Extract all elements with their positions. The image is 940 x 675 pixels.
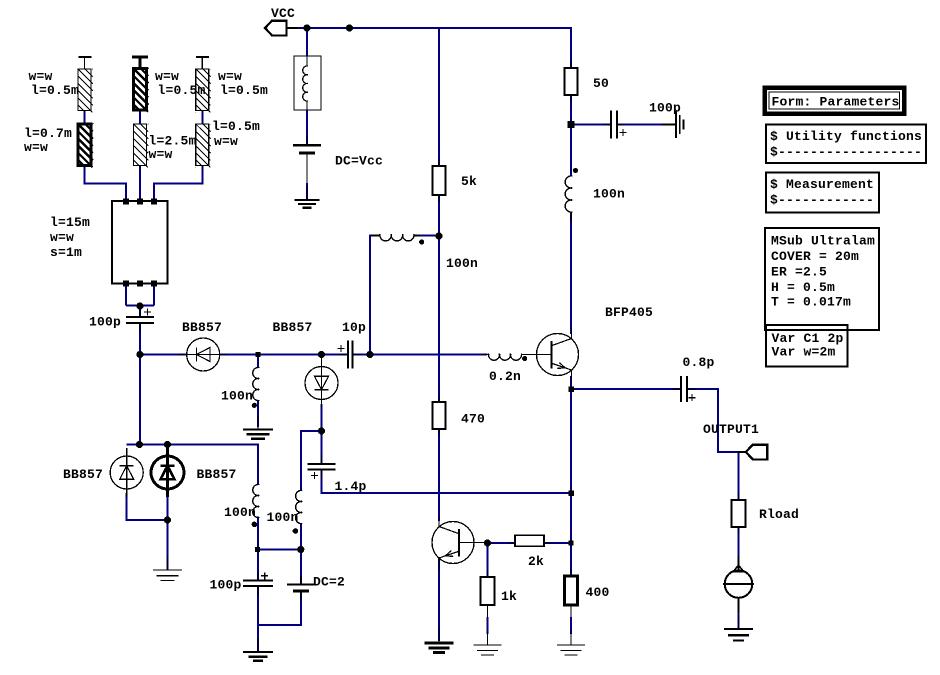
- svg-text:2k: 2k: [528, 554, 544, 569]
- svg-text:100n: 100n: [224, 505, 256, 520]
- svg-text:w=w: w=w: [149, 147, 173, 162]
- svg-text:400: 400: [586, 585, 610, 600]
- svg-text:w=w: w=w: [155, 69, 179, 84]
- svg-text:l=0.5m: l=0.5m: [158, 83, 206, 98]
- svg-text:100n: 100n: [593, 187, 625, 202]
- svg-text:MSub Ultralam: MSub Ultralam: [771, 234, 875, 249]
- svg-text:BB857: BB857: [63, 467, 103, 482]
- svg-text:1.4p: 1.4p: [335, 479, 367, 494]
- svg-text:T = 0.017m: T = 0.017m: [771, 295, 851, 310]
- svg-text:VCC: VCC: [271, 6, 295, 21]
- svg-text:0.8p: 0.8p: [683, 355, 715, 370]
- svg-text:BB857: BB857: [182, 320, 222, 335]
- svg-text:100n: 100n: [446, 256, 478, 271]
- svg-text:DC=Vcc: DC=Vcc: [335, 154, 383, 169]
- svg-text:BB857: BB857: [197, 467, 237, 482]
- svg-text:100p: 100p: [649, 101, 681, 116]
- svg-text:10p: 10p: [342, 320, 366, 335]
- svg-text:470: 470: [461, 412, 485, 427]
- svg-text:s=1m: s=1m: [50, 245, 82, 260]
- svg-text:Rload: Rload: [759, 507, 799, 522]
- svg-text:w=w: w=w: [50, 230, 74, 245]
- svg-text:DC=2: DC=2: [313, 575, 345, 590]
- svg-text:Form: Parameters: Form: Parameters: [772, 95, 900, 110]
- svg-text:COVER = 20m: COVER = 20m: [771, 249, 859, 264]
- svg-text:0.2n: 0.2n: [489, 369, 521, 384]
- svg-text:H = 0.5m: H = 0.5m: [771, 280, 835, 295]
- svg-text:l=0.5m: l=0.5m: [220, 83, 268, 98]
- svg-text:l=0.5m: l=0.5m: [31, 83, 79, 98]
- svg-text:100p: 100p: [89, 315, 121, 330]
- svg-text:100n: 100n: [267, 510, 299, 525]
- svg-text:BFP405: BFP405: [605, 305, 653, 320]
- svg-text:Var w=2m: Var w=2m: [772, 345, 836, 360]
- svg-text:5k: 5k: [461, 174, 477, 189]
- svg-text:50: 50: [593, 76, 609, 91]
- svg-text:$ Measurement: $ Measurement: [770, 177, 874, 192]
- svg-text:l=15m: l=15m: [50, 215, 90, 230]
- svg-text:w=w: w=w: [24, 140, 48, 155]
- svg-text:1k: 1k: [501, 589, 517, 604]
- svg-text:BB857: BB857: [273, 320, 313, 335]
- svg-text:$ Utility functions: $ Utility functions: [770, 129, 922, 144]
- svg-text:w=w: w=w: [29, 69, 53, 84]
- svg-text:l=0.5m: l=0.5m: [212, 119, 260, 134]
- svg-text:$------------------: $------------------: [770, 145, 922, 160]
- svg-text:ER =2.5: ER =2.5: [771, 265, 827, 280]
- svg-text:OUTPUT1: OUTPUT1: [703, 422, 759, 437]
- svg-text:w=w: w=w: [218, 69, 242, 84]
- svg-text:100p: 100p: [210, 578, 242, 593]
- svg-text:l=0.7m: l=0.7m: [24, 126, 72, 141]
- svg-text:$------------: $------------: [770, 193, 874, 208]
- svg-text:100n: 100n: [221, 389, 253, 404]
- svg-text:w=w: w=w: [214, 134, 238, 149]
